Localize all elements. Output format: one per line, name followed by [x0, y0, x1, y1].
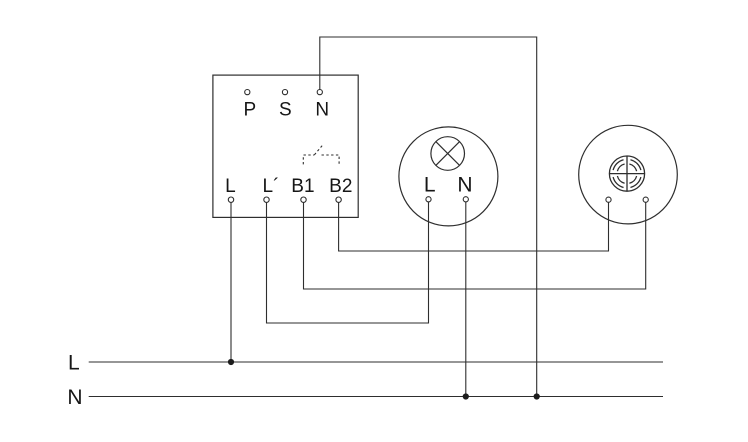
svg-text:N: N: [67, 386, 82, 409]
N supply rail: [89, 396, 663, 398]
sensor B outline: [579, 125, 678, 224]
sensor B head symbol: [609, 156, 644, 191]
terminal N (lamp): [463, 197, 468, 202]
lamp E1 bulb symbol: [431, 137, 465, 171]
svg-text:S: S: [279, 100, 292, 121]
wire lamp N down to N rail: [465, 202, 467, 397]
terminal 1 (sensor): [606, 197, 611, 202]
controller box U1: [213, 75, 358, 217]
wire B2 to sensor terminal 1: [339, 202, 609, 251]
svg-text:B1: B1: [291, 176, 314, 197]
junction dot N loop on N rail: [534, 393, 540, 399]
terminal B1: [301, 197, 306, 202]
terminal L (box): [228, 197, 233, 202]
svg-text:L: L: [68, 352, 80, 375]
svg-text:L: L: [424, 173, 436, 196]
svg-text:N: N: [457, 173, 472, 196]
L supply rail: [89, 361, 663, 363]
terminal 2 (sensor): [643, 197, 648, 202]
terminal B2: [336, 197, 341, 202]
terminal L (lamp): [426, 197, 431, 202]
wire box L down to L rail: [230, 202, 232, 362]
terminal N (top): [317, 90, 322, 95]
svg-text:B2: B2: [329, 176, 352, 197]
terminal L' (box): [264, 197, 269, 202]
relay contact K1 (dashed): [303, 146, 339, 165]
wire B1 to sensor terminal 2: [304, 202, 646, 289]
terminal S: [282, 90, 287, 95]
svg-text:P: P: [243, 100, 256, 121]
junction dot lamp N on N rail: [463, 393, 469, 399]
svg-text:L´: L´: [263, 176, 280, 197]
terminal P: [245, 90, 250, 95]
wire box L' to lamp L: [267, 202, 429, 323]
wire N loop: box N terminal up over to right and down to N rail: [320, 37, 537, 397]
svg-text:L: L: [225, 176, 236, 197]
junction dot on L rail: [228, 359, 234, 365]
lamp E1 outline: [399, 127, 498, 226]
svg-text:N: N: [315, 100, 329, 121]
